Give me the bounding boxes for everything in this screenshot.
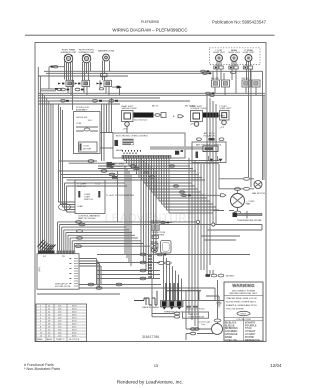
isolator label <box>204 132 215 137</box>
convection label <box>151 232 166 238</box>
svg-text:COM: COM <box>76 123 81 125</box>
title <box>112 28 188 33</box>
surface unit LF <box>216 55 223 62</box>
convection fan label <box>246 200 255 206</box>
arrow right of switch 3 <box>112 86 122 96</box>
svg-text:GN-YL: GN-YL <box>240 314 247 316</box>
conv fan lower connector <box>213 211 241 214</box>
caution oval <box>237 311 250 315</box>
warning header <box>230 283 258 295</box>
surface unit LR label <box>228 49 240 54</box>
board output wires <box>79 283 215 300</box>
lower wire connectors <box>140 253 146 280</box>
connector oval top left <box>51 66 69 103</box>
eoc inner relay <box>115 139 184 152</box>
temperature probe label <box>237 219 262 222</box>
svg-text:LOAD: LOAD <box>77 205 83 208</box>
svg-text:WIRING DIAGRAM – PLEFM399DCC: WIRING DIAGRAM – PLEFM399DCC <box>112 28 188 33</box>
right unit leads <box>217 62 251 67</box>
terminal block label <box>164 310 184 313</box>
watermark <box>105 213 196 225</box>
fanout connector ovals <box>134 165 184 193</box>
diagonal wire hatches <box>38 240 56 252</box>
surface unit center <box>245 55 252 62</box>
svg-text:GY/GRAY: GY/GRAY <box>245 333 256 336</box>
oven relay <box>151 241 159 253</box>
right unit drop wires <box>213 69 251 93</box>
surface unit right rear label <box>60 49 77 54</box>
convection fan motor <box>231 188 245 211</box>
display board box <box>37 254 79 290</box>
svg-text:BK 10 RD: BK 10 RD <box>185 106 195 108</box>
relay rounded box <box>161 241 172 254</box>
oven light bulb <box>186 290 223 340</box>
top horizontal bus wires <box>38 67 265 104</box>
right connector blocks <box>214 62 253 74</box>
control harness label <box>78 215 100 220</box>
svg-text:GN/GREEN: GN/GREEN <box>225 331 238 333</box>
svg-text:BAKE ELEMENT: BAKE ELEMENT <box>143 306 160 309</box>
lock motor <box>79 142 98 152</box>
left wire bus verticals <box>38 67 53 251</box>
svg-text:W/WHITE: W/WHITE <box>245 322 256 324</box>
svg-text:SURFACE UNIT: SURFACE UNIT <box>78 51 95 54</box>
svg-text:316417766: 316417766 <box>142 335 159 339</box>
wire id labels top band <box>152 106 195 108</box>
electronic oven control box <box>113 133 185 158</box>
surface unit right rear <box>64 54 73 80</box>
svg-text:T/TAN: T/TAN <box>245 327 252 330</box>
footer rendered by <box>117 380 183 386</box>
ribbon connector P1 <box>38 251 55 254</box>
heat switch 2 lamp <box>194 122 199 127</box>
right far verticals <box>249 69 265 187</box>
svg-text:(P6): (P6) <box>39 267 41 271</box>
lower long wires <box>37 255 250 295</box>
surface unit right front <box>82 54 91 80</box>
wire table header <box>37 338 80 341</box>
dl connector pair <box>157 253 171 264</box>
connector ovals row <box>61 88 104 91</box>
eoc corner component <box>175 150 183 155</box>
tracer wire note <box>224 296 263 311</box>
door seal bar 1 <box>134 113 154 122</box>
svg-text:Temperature Probe: Temperature Probe <box>186 308 206 311</box>
left surface switch block right 2 <box>242 78 261 87</box>
svg-text:FAN: FAN <box>246 203 251 206</box>
wires to ribbon connector P2 <box>58 222 212 251</box>
eoc fanout horizontals <box>124 161 219 214</box>
oven light connector <box>214 280 221 324</box>
temperature probe jack label <box>186 306 206 311</box>
potentiometer bar right <box>98 171 134 222</box>
svg-text:LATCH SW: LATCH SW <box>76 116 88 119</box>
isolator connector row <box>197 138 224 141</box>
svg-text:WARMER ZONE: WARMER ZONE <box>98 50 115 53</box>
svg-text:FAN MOTOR: FAN MOTOR <box>252 192 265 195</box>
center vertical trunks <box>125 158 156 279</box>
svg-text:YELLOW STRIPE.: YELLOW STRIPE. <box>226 308 245 310</box>
mid-left vertical wires <box>59 63 73 178</box>
svg-text:BK/BLACK: BK/BLACK <box>225 321 237 324</box>
middle bundle connector ovals <box>101 165 136 179</box>
svg-text:ASSEMBLY: ASSEMBLY <box>76 108 88 111</box>
svg-text:SURF UNIT: SURF UNIT <box>243 52 255 54</box>
main terminal block <box>161 301 184 310</box>
middle wire bundle horizontals <box>59 163 220 186</box>
svg-text:BK 10: BK 10 <box>152 106 159 108</box>
svg-text:SWITCH: SWITCH <box>84 199 93 201</box>
lock box label <box>76 107 90 111</box>
warmer zone element <box>68 54 110 95</box>
temperature probe symbol <box>233 211 263 219</box>
right vertical trunks <box>189 95 219 330</box>
wire table data <box>40 306 77 338</box>
heat switch 2 label <box>191 105 207 110</box>
oven sensor box <box>152 279 209 319</box>
svg-text:MOTOR: MOTOR <box>83 149 92 151</box>
surface unit LR <box>231 55 238 62</box>
heat switch 2 <box>191 111 203 122</box>
surface switch 1 <box>58 80 74 86</box>
surface unit right front label <box>78 50 95 54</box>
title rule <box>25 34 275 36</box>
cool fan label <box>252 192 265 195</box>
svg-text:MOTOR DOOR: MOTOR DOOR <box>55 286 71 288</box>
svg-text:PART NO 316443: PART NO 316443 <box>78 217 96 220</box>
svg-text:LOCK: LOCK <box>83 146 89 148</box>
svg-text:TERMINAL BLOCK: TERMINAL BLOCK <box>164 310 184 313</box>
warmer zone label <box>98 50 115 53</box>
svg-text:Publication No: 5995423547: Publication No: 5995423547 <box>212 20 267 25</box>
svg-text:SURF UNIT: SURF UNIT <box>213 52 225 54</box>
footer page number <box>154 363 159 368</box>
warning box outer <box>224 282 263 341</box>
surface unit center label <box>243 49 255 54</box>
door lock assembly box <box>74 112 101 154</box>
left surface switch block right 1 <box>211 78 230 87</box>
harness connector ovals <box>76 221 86 248</box>
heat switch 3 <box>206 111 229 121</box>
svg-text:WARNING: WARNING <box>232 283 254 288</box>
svg-text:Y/YELLOW: Y/YELLOW <box>225 340 238 342</box>
svg-text:* Non-Illustrated Parts: * Non-Illustrated Parts <box>24 367 60 371</box>
surface switch 2 <box>75 80 90 86</box>
svg-text:MR/MAROON: MR/MAROON <box>245 339 260 342</box>
svg-text:DOUBLE OVEN: DOUBLE OVEN <box>191 108 207 110</box>
right switches drop wires <box>201 70 263 96</box>
lock box top connectors <box>92 99 118 102</box>
verticals between lock box and eoc <box>102 98 128 161</box>
svg-text:N.O.: N.O. <box>88 120 93 122</box>
heat switch 3 lamp <box>220 120 227 129</box>
svg-text:R/RED: R/RED <box>225 337 232 339</box>
heat switch 1 lamp <box>123 122 130 131</box>
arrow B ref <box>180 194 226 197</box>
svg-text:COLOR CODE: COLOR CODE <box>236 319 251 321</box>
wires right column mid <box>201 225 262 278</box>
footer functional parts <box>24 363 60 371</box>
svg-text:SURF UNIT: SURF UNIT <box>228 52 240 54</box>
arrow A ref <box>173 115 184 118</box>
color code table <box>224 318 263 342</box>
terminal feeder wires <box>164 255 202 302</box>
dashed box surface units left <box>210 48 261 65</box>
svg-text:LEADVENTURE: LEADVENTURE <box>105 213 196 225</box>
junction node <box>196 220 215 226</box>
cool fan motor <box>254 181 262 189</box>
svg-text:SINGLE OVEN: SINGLE OVEN <box>122 108 137 110</box>
svg-text:ELECTRONIC OVEN CONTROL: ELECTRONIC OVEN CONTROL <box>116 135 149 137</box>
door seal bar 2 <box>190 113 219 126</box>
anti-tip connector <box>107 162 128 168</box>
broil element serpentine <box>134 291 160 309</box>
svg-text:TRACER WIRE: WIRE COLOR: TRACER WIRE: WIRE COLOR <box>226 297 257 300</box>
svg-text:AWG: AWG <box>47 338 52 341</box>
bar 1 connector <box>155 113 166 118</box>
heat switch 1 <box>122 111 134 122</box>
label blobs left of eoc <box>110 164 115 168</box>
svg-text:SURF UNIT: SURF UNIT <box>220 108 232 110</box>
svg-text:UL STYLE: UL STYLE <box>69 339 80 341</box>
svg-text:15: 15 <box>154 363 159 368</box>
wire band into control box <box>150 146 203 149</box>
svg-text:BL/BLUE: BL/BLUE <box>225 325 235 327</box>
tipover control box <box>192 142 226 163</box>
cool fan wire connectors <box>219 177 254 190</box>
svg-text:TL LEFT POTENTIOMETER: TL LEFT POTENTIOMETER <box>106 195 134 197</box>
svg-text:V/VIOLET: V/VIOLET <box>245 331 256 333</box>
svg-text:P/PURPLE: P/PURPLE <box>245 325 257 327</box>
svg-text:TEMP°C: TEMP°C <box>56 339 65 341</box>
svg-text:NOTED FIRST, STRIPE NEXT.: NOTED FIRST, STRIPE NEXT. <box>226 302 257 304</box>
svg-text:TL LT: TL LT <box>95 184 101 186</box>
eoc pin header strip <box>122 156 171 159</box>
wire table <box>36 304 87 341</box>
svg-text:O/ORANGE: O/ORANGE <box>225 333 238 336</box>
footer date <box>270 363 282 368</box>
wire into lock box <box>59 133 114 163</box>
svg-text:PK/PINK: PK/PINK <box>245 337 255 339</box>
svg-text:Rendered by LeadVenture, Inc.: Rendered by LeadVenture, Inc. <box>117 380 183 386</box>
heat switch 1 label <box>122 105 137 110</box>
header publication number <box>212 20 267 25</box>
surface unit LF label <box>213 50 225 54</box>
ground strap <box>183 296 224 307</box>
eoc pin numbers <box>122 150 141 154</box>
svg-text:PLEFM399D: PLEFM399D <box>141 20 160 24</box>
eoc pin fanout comb <box>124 158 169 213</box>
svg-text:EXAMPLE: GREEN AND WITH: EXAMPLE: GREEN AND WITH <box>226 304 257 307</box>
svg-text:INF SW: INF SW <box>211 78 220 80</box>
ignitor label <box>150 220 172 223</box>
svg-text:12/04: 12/04 <box>270 363 282 368</box>
svg-text:SURFACE UNIT: SURFACE UNIT <box>60 51 77 54</box>
oven light cap label <box>198 321 211 327</box>
header model number <box>141 20 160 24</box>
center pin column <box>148 256 152 277</box>
color code rows <box>225 321 260 341</box>
svg-text:Seal Interlock: Seal Interlock <box>134 119 148 122</box>
heat switch 3 label <box>220 106 232 110</box>
part number 316417766 <box>142 335 159 339</box>
svg-text:SWITCH: SWITCH <box>77 186 86 188</box>
oven light switch box <box>75 180 105 214</box>
svg-text:OVEN SENSOR: OVEN SENSOR <box>188 317 204 319</box>
diagram border frame <box>35 43 266 342</box>
svg-text:WIRE: WIRE <box>37 339 43 341</box>
coil blocks <box>151 224 159 231</box>
svg-text:BK RED: BK RED <box>226 276 235 278</box>
svg-text:BR/BROWN: BR/BROWN <box>225 328 238 330</box>
svg-text:BEFORE SERVICING UNIT.: BEFORE SERVICING UNIT. <box>230 293 258 295</box>
display board pins <box>70 258 102 288</box>
ribbon connector P2 <box>43 251 75 259</box>
surface switch 3 <box>97 80 112 86</box>
svg-text:TEMPERATURE PROBE: TEMPERATURE PROBE <box>237 219 262 222</box>
harness bundle to light switch box <box>59 171 76 212</box>
